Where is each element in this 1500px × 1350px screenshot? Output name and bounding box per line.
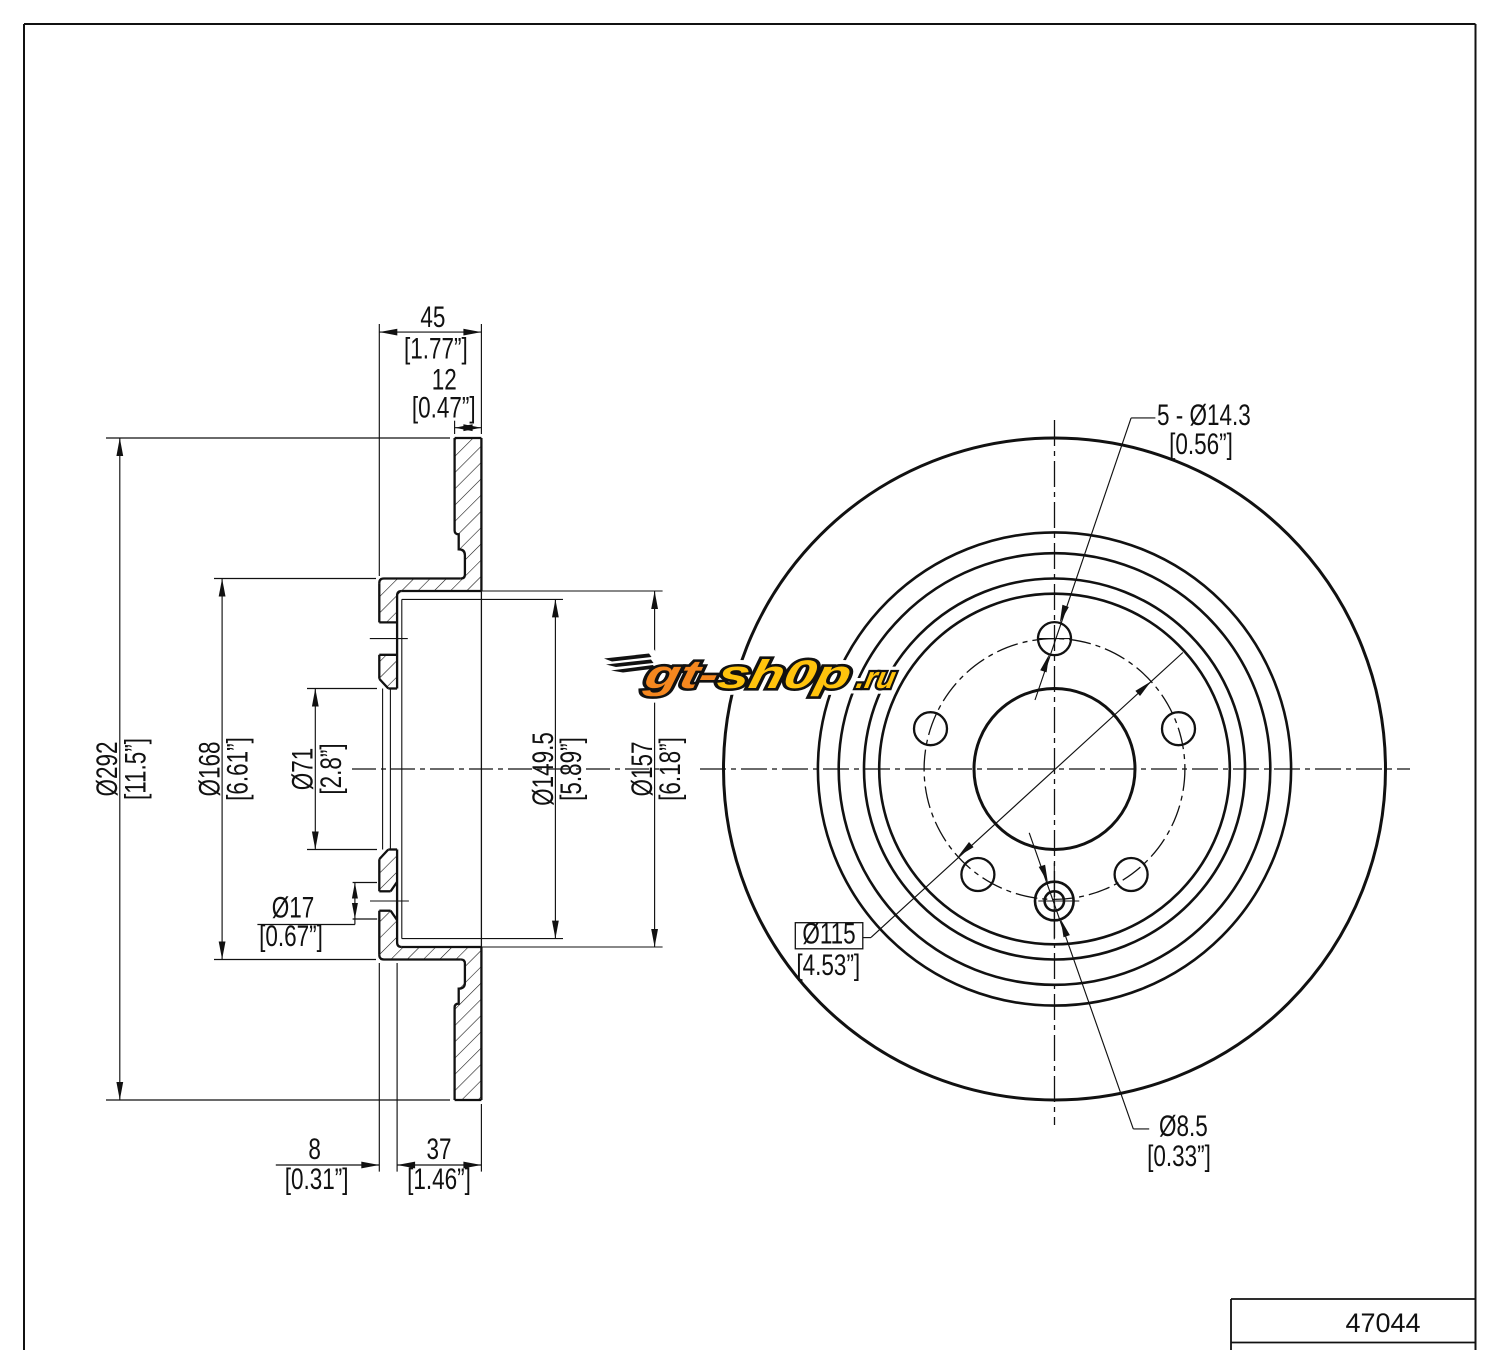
section hatched material: bottom band+flange+plate bbox=[379, 911, 481, 1100]
svg-text:[2.8”]: [2.8”] bbox=[314, 743, 348, 794]
bore chamfer edge circles (thin verticals) bbox=[382, 689, 384, 850]
section outline: mounting face / bore chamfer upper bbox=[378, 655, 380, 679]
Ø157 extension lines bbox=[481, 590, 662, 592]
svg-text:[4.53”]: [4.53”] bbox=[796, 948, 860, 982]
svg-text:[0.33”]: [0.33”] bbox=[1147, 1139, 1211, 1173]
dimension 45 [1.77"] overall width bbox=[378, 324, 380, 576]
section outline: bolt hole edges in section bbox=[379, 621, 397, 623]
bolt hole Ø14.3 #1 bbox=[1038, 622, 1071, 655]
dimension Ø71 [2.8"] bore diameter bbox=[307, 688, 377, 690]
center bore Ø71 bbox=[974, 689, 1135, 850]
dimension Ø292 [11.5"] outer diameter bbox=[106, 437, 450, 439]
section outline: hat flange bottom surface bbox=[379, 955, 461, 960]
outer circle Ø292 bbox=[724, 438, 1386, 1100]
sheet border frame bbox=[24, 23, 1476, 25]
svg-text:Ø8.5: Ø8.5 bbox=[1159, 1109, 1208, 1143]
drum inner surface Ø149.5 edges + extension bbox=[402, 598, 563, 600]
dimension Ø168 [6.61"] hat diameter bbox=[214, 578, 376, 580]
svg-text:Ø115: Ø115 bbox=[802, 916, 855, 950]
locating hole cross ticks bbox=[1038, 900, 1079, 902]
section outline: small hole Ø8.5 edges in section bbox=[379, 910, 390, 912]
dimension 8 [0.31"] plate thickness bbox=[378, 963, 380, 1172]
braking band inner edge circle bbox=[818, 532, 1291, 1005]
svg-text:[0.47”]: [0.47”] bbox=[412, 390, 476, 424]
section outline: mounting face / bore chamfer lower bbox=[378, 859, 380, 891]
section outline: countersink Ø17 cone edges bbox=[391, 911, 398, 920]
front view centerlines bbox=[700, 768, 1410, 770]
section outline: band right face lower bbox=[480, 947, 482, 1100]
bolt circle Ø115 (dash-dot) bbox=[924, 639, 1185, 900]
bolt hole Ø14.3 #4 bbox=[961, 858, 994, 891]
dimension 12 [0.47"] band thickness bbox=[454, 421, 456, 434]
label 5-Ø14.3 [0.56"] with leader bbox=[1131, 417, 1155, 419]
dimension Ø149.5 [5.89"] drum inner diameter bbox=[554, 599, 556, 938]
section outline: hat flange top surface bbox=[379, 579, 461, 584]
cup fillet edge circle (thin vertical) bbox=[401, 599, 403, 938]
drum rim edge (vertical through opening) bbox=[480, 591, 482, 947]
svg-text:[1.46”]: [1.46”] bbox=[407, 1162, 471, 1196]
bolt hole Ø14.3 #2 bbox=[1162, 712, 1195, 745]
section hatched material: top band+flange+plate bbox=[379, 438, 481, 622]
svg-text:45: 45 bbox=[420, 300, 445, 334]
label Ø115 [4.53"] boxed with diameter leader bbox=[795, 923, 863, 949]
section outline: plate right face lower bbox=[397, 850, 402, 948]
svg-text:47044: 47044 bbox=[1345, 1308, 1420, 1338]
section outline: mounting face lower bbox=[378, 911, 380, 955]
dimension 37 [1.46"] hat depth bbox=[397, 1164, 481, 1166]
section outline: braking band top bbox=[455, 437, 482, 439]
section outline: band right face upper bbox=[480, 438, 482, 591]
svg-text:[0.67”]: [0.67”] bbox=[259, 919, 323, 953]
section outline: band left edge with steps (upper) bbox=[455, 438, 465, 579]
section outline: bore surface top bbox=[388, 687, 397, 689]
bolt hole Ø14.3 #5 bbox=[1115, 858, 1148, 891]
svg-text:[0.56”]: [0.56”] bbox=[1169, 427, 1233, 461]
svg-text:gt-sh0p: gt-sh0p bbox=[640, 652, 856, 696]
section outline: band left edge with steps (lower) bbox=[455, 960, 465, 1101]
section outline: flange top (Ø157 cut edge) bottom bbox=[402, 946, 482, 948]
svg-text:.ru: .ru bbox=[854, 662, 899, 695]
section centerline bbox=[352, 768, 672, 770]
section outline: plate right face upper bbox=[397, 591, 402, 689]
svg-text:[11.5”]: [11.5”] bbox=[118, 738, 152, 800]
gt-shop.ru watermark logo bbox=[604, 652, 901, 696]
svg-text:[0.31”]: [0.31”] bbox=[285, 1162, 349, 1196]
small hole center tick (section) bbox=[370, 900, 409, 902]
section outline: mounting face upper bbox=[378, 583, 380, 622]
top bolt hole horizontal tick bbox=[1038, 638, 1071, 640]
svg-text:[6.18”]: [6.18”] bbox=[653, 737, 687, 801]
locating hole Ø8.5 with Ø17 c-sink (double circle) bbox=[1035, 882, 1074, 921]
dimension Ø17 [0.67"] countersink bbox=[353, 882, 377, 884]
hat top circle bbox=[879, 594, 1230, 945]
section outline: flange bottom (Ø157 cut edge) top bbox=[402, 590, 482, 592]
section hatched material: top plate below bolt hole bbox=[379, 655, 397, 689]
svg-text:[5.89”]: [5.89”] bbox=[554, 737, 588, 801]
bolt hole center tick (section) bbox=[370, 638, 408, 640]
section outline: braking band bottom bbox=[455, 1099, 482, 1101]
section outline: bore surface bottom bbox=[388, 848, 397, 850]
label Ø8.5 [0.33"] with leader bbox=[1133, 1128, 1149, 1130]
dimension Ø157 [6.18"] bbox=[654, 591, 656, 947]
title block bbox=[1231, 1298, 1476, 1300]
section hatched material: bottom plate above small hole bbox=[379, 850, 397, 892]
hat circle Ø168 bbox=[864, 579, 1245, 960]
svg-text:[6.61”]: [6.61”] bbox=[220, 737, 254, 801]
bolt hole Ø14.3 #3 bbox=[914, 712, 947, 745]
step circle bbox=[839, 553, 1271, 985]
svg-text:[1.77”]: [1.77”] bbox=[404, 331, 468, 365]
